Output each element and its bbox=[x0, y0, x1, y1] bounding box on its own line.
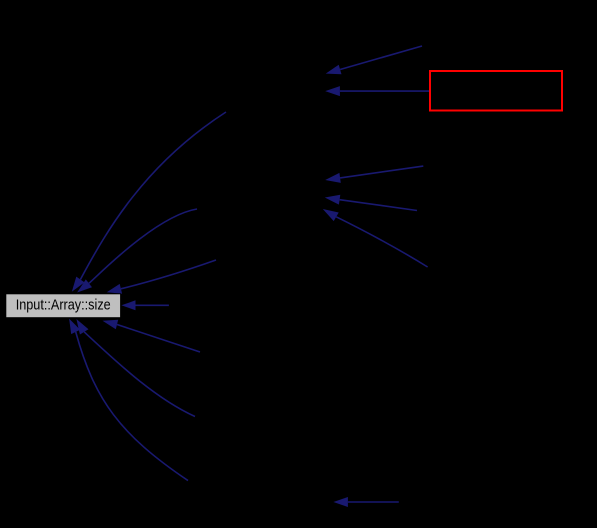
edge A: top caller into hidden node 1 bbox=[326, 46, 422, 74]
edge F: long curve into Input::Array::size top bbox=[72, 112, 226, 292]
edge C: caller into hidden node 2 bbox=[325, 166, 423, 183]
edge K: curve into Input::Array::size bottom bbox=[76, 319, 195, 417]
edge E: curved caller into hidden node 2 bbox=[323, 209, 428, 267]
edge B: red node into hidden node 1 bbox=[325, 86, 431, 96]
node: Input::Array::size (current function, gray) bbox=[6, 294, 121, 318]
svg-text:Input::Array::size: Input::Array::size bbox=[16, 297, 111, 314]
edge H: shallow line into Input::Array::size top right bbox=[107, 260, 216, 294]
edge L: long curve into Input::Array::size bottom left bbox=[69, 319, 188, 481]
edge J: shallow line into Input::Array::size bottom right bbox=[103, 320, 201, 352]
edge I: short horizontal into Input::Array::size right edge bbox=[121, 300, 168, 310]
edge D: caller into hidden node 2 bbox=[325, 195, 417, 211]
edge G: curve into Input::Array::size top bbox=[77, 209, 197, 293]
node: red-bordered caller box bbox=[430, 71, 562, 111]
edge M: bottom horizontal arrow into hidden node bbox=[333, 497, 398, 507]
